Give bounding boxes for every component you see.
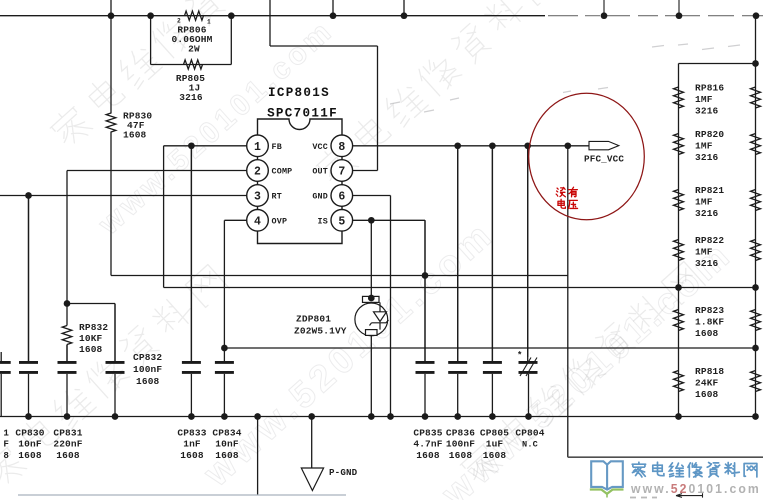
svg-text:FB: FB [272,142,282,152]
svg-text:8: 8 [3,450,9,461]
wire: OVP vertical down [223,220,225,348]
svg-text:2W: 2W [188,44,200,55]
capacitor CP830 10nF 1608 [19,196,38,417]
svg-text:CP832: CP832 [133,352,162,363]
svg-text:10KF: 10KF [79,333,103,344]
junction gnd/CP830 [25,413,32,420]
junction bus/ladder riser [753,12,760,19]
logo text 家电维修资料网 [632,462,645,477]
junction COMP node [64,300,71,307]
capacitor CP833 1nF 1608 [182,146,201,417]
svg-text:IS: IS [318,217,328,227]
junction gnd/CP804 [525,413,532,420]
resistor unlabeled (right chain, pair of RP818) [751,371,761,392]
svg-text:1MF: 1MF [695,141,713,152]
junction VCC/CP805 [489,142,496,149]
svg-text:1608: 1608 [449,450,473,461]
svg-text:CP836: CP836 [446,427,475,438]
wire: right branch down and out [567,146,569,457]
wire: zener to ground bus [370,335,372,416]
junction VCC/CP804 [524,142,531,149]
junction rail/right chain [752,60,759,67]
capacitor CP835 4.7nF 1608 [416,220,435,416]
resistor RP823 1.8KF 1608 (left chain) [674,310,684,331]
wire: stub up at x=679 [678,0,680,16]
capacitor CP831 220nF 1608 [58,345,77,417]
svg-text:100nF: 100nF [446,439,475,450]
svg-text:RP821: RP821 [695,185,724,196]
svg-text:1: 1 [3,427,9,438]
wire: pin4 OVP left [224,219,246,221]
pin 5 (IS) [331,210,353,232]
resistor RP806 0.06OHM 2W [185,11,204,20]
logo url text [631,482,761,496]
resistor unlabeled (right chain, pair of RP822) [751,240,761,261]
junction VCC/CP836 [454,142,461,149]
junction left chain/wire287 [675,284,682,291]
svg-text:1.8KF: 1.8KF [695,317,724,328]
junction right chain/wire348 [752,345,759,352]
wire: pin7 OUT up and to page top [353,170,378,172]
junction wire275/CP835 branch [422,272,429,279]
svg-text:1: 1 [207,19,211,26]
junction RT/CP830 [25,192,32,199]
resistor unlabeled (right chain, pair of RP816) [751,87,761,108]
svg-text:RP822: RP822 [695,235,724,246]
pin 1 (FB) [247,135,269,157]
junction FB/CP833 branch [188,142,195,149]
svg-text:GND: GND [312,192,328,202]
junction bus stub2 [401,12,408,19]
svg-text:24KF: 24KF [695,378,719,389]
svg-text:1608: 1608 [215,450,239,461]
wire: RP830 branch down from bus [110,16,112,114]
junction gnd/CP805 [489,413,496,420]
svg-text:1608: 1608 [123,130,147,141]
wire: pin3 RT left to page edge [0,195,247,197]
wire: stub up at x=111 [110,0,112,16]
svg-text:4.7nF: 4.7nF [413,439,442,450]
svg-text:10nF: 10nF [215,439,239,450]
wire: CP804 branch [527,146,529,361]
junction gnd/CP836 [454,413,461,420]
capacitor CP834 10nF 1608 [215,348,234,417]
svg-text:6: 6 [338,191,345,204]
resistor RP822 1MF 3216 (left chain) [674,240,684,261]
pin 7 (OUT) [331,160,353,182]
svg-text:CP835: CP835 [413,427,442,438]
svg-text:2: 2 [177,18,181,25]
capacitor CP832 100nF 1608 [106,304,125,417]
wire: zener branch down [370,220,372,298]
wire: horizontal node RT/CS wire y=275.5 [111,275,568,277]
watermark 家电维修资料网 row2 (top right) [313,141,360,189]
wire: pin8 VCC to PFC_VCC [353,145,589,147]
junction VCC/right branch [564,142,571,149]
svg-text:3216: 3216 [179,92,203,103]
wire: ladder left chain [678,64,680,417]
svg-text:P-GND: P-GND [329,467,358,478]
svg-text:CP834: CP834 [212,427,241,438]
svg-text:Z02W5.1VY: Z02W5.1VY [294,326,347,337]
wire: FB vertical down [163,146,165,288]
op-amp/controller U1 ICP801S SPC7011F body [258,119,343,244]
resistor RP805 1J 3216 [184,60,203,69]
wire: stub down from bus to page border [257,417,259,496]
wire: CP833 branch down [190,146,192,361]
annotation circle (red) around PFC_VCC [529,93,645,219]
svg-text:COMP: COMP [272,167,293,177]
logo book icon [590,461,624,497]
wire: OVP long horizontal to ladder (y=348) [224,347,755,349]
wire: stub up at x=604 [603,0,605,16]
junction gnd/zener [368,413,375,420]
annotation text 电压 (red) [558,199,565,208]
svg-text:CP831: CP831 [53,427,82,438]
junction gnd/CP831 [64,413,71,420]
resistor RP832 10KF 1608 [66,304,68,326]
svg-text:OUT: OUT [312,167,328,177]
capacitor CP804 N.C (hatched) [519,146,538,417]
junction gnd/P-GND [308,413,315,420]
resistor unlabeled (right chain, pair of RP823) [751,310,761,331]
capacitor CP836 100nF 1608 [448,146,467,417]
svg-text:ICP801S: ICP801S [268,86,330,100]
svg-text:VCC: VCC [312,142,328,152]
svg-text:1608: 1608 [483,450,507,461]
wire: pin2 COMP left [67,170,247,172]
svg-text:220nF: 220nF [53,439,82,450]
junction gnd/stub [254,413,261,420]
resistor RP821 1MF 3216 (left chain) [674,190,684,211]
svg-text:PFC_VCC: PFC_VCC [584,154,624,165]
svg-text:3: 3 [254,191,261,204]
svg-text:3216: 3216 [695,208,719,219]
svg-text:4: 4 [254,215,261,228]
capacitor CP805 1uF 1608 [483,146,502,417]
svg-text:1608: 1608 [79,344,103,355]
svg-text:RP823: RP823 [695,305,724,316]
svg-text:3216: 3216 [695,258,719,269]
resistor unlabeled (right chain, pair of RP821) [751,190,761,211]
wire: pin1 FB left [164,145,247,147]
svg-text:1608: 1608 [18,450,42,461]
junction right chain/wire287 [752,284,759,291]
junction bus/RP805 left [147,12,154,19]
junction gnd/CP833 [188,413,195,420]
svg-text:1nF: 1nF [183,439,201,450]
junction bus/RP805 right [228,12,235,19]
resistor RP816 1MF 3216 (left chain) [674,87,684,108]
resistor RP818 24KF 1608 (left chain) [674,371,684,392]
svg-text:N.C: N.C [522,440,538,450]
svg-text:CP805: CP805 [480,427,509,438]
pin 6 (GND) [331,185,353,207]
pin 3 (RT) [247,185,269,207]
svg-text:3216: 3216 [695,106,719,117]
ground symbol P-GND [311,417,313,469]
junction gnd/pin6 [387,413,394,420]
capacitor (partial, page edge) [0,352,11,417]
svg-text:1: 1 [254,141,261,154]
wire: jog to CP832 [67,303,115,305]
pin 4 (OVP) [247,210,269,232]
svg-text:ZDP801: ZDP801 [296,314,331,325]
wire: stub up at x=333 [332,0,334,16]
svg-text:1uF: 1uF [486,439,504,450]
svg-text:1MF: 1MF [695,247,713,258]
junction bus stub3 [601,12,608,19]
watermark 家电维修资料网 row4 (bottom right) [457,440,504,488]
annotation text 没有 (red) [556,187,565,196]
svg-text:RP820: RP820 [695,129,724,140]
svg-text:2: 2 [254,166,261,179]
svg-text:F: F [3,439,9,450]
watermark 家电维修资料网 row3 (bottom left) [0,443,28,491]
wire: IS branch down to CP835 [424,220,426,361]
svg-text:CP833: CP833 [177,427,206,438]
svg-text:1608: 1608 [56,450,80,461]
svg-text:RP832: RP832 [79,322,108,333]
svg-text:1608: 1608 [136,376,160,387]
junction gnd/ladder R [752,413,759,420]
node PFC_VCC arrow [589,141,619,149]
zener diode ZDP801 Z02W5.1VY [355,296,389,335]
svg-text:1MF: 1MF [695,94,713,105]
wire: CP836 branch [457,146,459,361]
wire: CP830 branch [28,196,30,362]
wire: FB long horizontal to ladder (y=287.5) [164,287,756,289]
svg-text:RP816: RP816 [695,83,724,94]
erased watermark remnant dashes (grey) [652,46,664,48]
decorative grey dashes bottom edge [630,497,657,499]
wire: ground bus [0,416,756,418]
junction bus stub [330,12,337,19]
svg-text:SPC7011F: SPC7011F [267,107,338,121]
svg-text:RP818: RP818 [695,366,724,377]
svg-text:OVP: OVP [272,217,288,227]
watermark latin row 2 [196,212,503,494]
junction OVP/CP834/wire348 [221,345,228,352]
resistor RP830 47F 1608 [106,113,116,132]
junction gnd/ladder L [675,413,682,420]
svg-text:10nF: 10nF [18,439,42,450]
wire: pin6 GND down to ground bus [353,195,391,197]
watermark latin row 3 [434,232,741,500]
svg-text:1608: 1608 [416,450,440,461]
junction gnd/CP835 [422,413,429,420]
junction bus/RP830 [108,12,115,19]
svg-text:1608: 1608 [695,389,719,400]
svg-text:5: 5 [338,215,345,228]
svg-text:1MF: 1MF [695,197,713,208]
junction gnd/CP834 [221,413,228,420]
svg-text:*: * [517,351,522,361]
watermark 家电维修资料网 row1 [47,103,94,151]
wire: riser bus to ladder [755,16,757,64]
junction bus stub4 [676,12,683,19]
wire: RP805 bypass loop [150,16,152,65]
wire: bottom-left grey page border [18,494,346,496]
svg-text:RT: RT [272,192,282,202]
svg-text:1608: 1608 [695,328,719,339]
pin 8 (VCC) [331,135,353,157]
watermark latin row 1 [93,13,341,241]
svg-text:100nF: 100nF [133,364,162,375]
wire: RP830 down to node wire [110,132,112,276]
svg-text:CP804: CP804 [515,427,544,438]
resistor unlabeled (right chain, pair of RP820) [751,134,761,155]
zener top junction [368,295,375,302]
wire: ladder top rail [679,63,756,65]
pin 2 (COMP) [247,160,269,182]
junction IS/zener [368,217,375,224]
wire: COMP vertical down [66,171,68,304]
svg-text:3216: 3216 [695,152,719,163]
junction gnd/CP832 [112,413,119,420]
svg-text:CP830: CP830 [15,427,44,438]
wire: CP805 branch [491,146,493,361]
wire: stub up at x=404 [403,0,405,16]
svg-text:1608: 1608 [180,450,204,461]
resistor RP820 1MF 3216 (left chain) [674,134,684,155]
svg-text:8: 8 [338,141,345,154]
svg-text:7: 7 [338,166,345,179]
wire: top horizontal supply bus [0,15,545,17]
logo underline arrow [676,493,703,497]
wire: ladder right chain [755,64,757,417]
wire: pin5 IS right [353,219,425,221]
